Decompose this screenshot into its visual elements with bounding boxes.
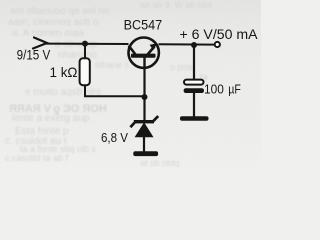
resistor R1 1 kOhm xyxy=(80,58,90,85)
output terminal xyxy=(215,42,220,47)
capacitor C1 100 uF (polarized) xyxy=(184,80,204,93)
svg-text:o poa: o poa xyxy=(170,62,193,72)
zener diode D1 6.8 V xyxy=(130,116,158,137)
node output junction xyxy=(191,42,197,48)
wire base lead to zener xyxy=(143,68,145,121)
svg-text:an sb 3. W sb obs: an sb 3. W sb obs xyxy=(140,0,213,10)
svg-text:100: 100 xyxy=(204,81,224,96)
svg-text:sthane s: sthane s xyxy=(95,60,130,70)
svg-text:lente a exerg aup: lente a exerg aup xyxy=(12,113,90,124)
node base junction xyxy=(142,94,148,100)
svg-text:a. A comen maa: a. A comen maa xyxy=(12,28,84,39)
svg-text:9/15 V: 9/15 V xyxy=(17,48,51,63)
input terminal xyxy=(33,38,47,49)
svg-text:am obanuoo qe aol no: am obanuoo qe aol no xyxy=(10,6,110,17)
svg-text:at sb obtq: at sb obtq xyxy=(140,158,180,168)
svg-text:6,8 V: 6,8 V xyxy=(101,130,128,145)
wire zener anode to ground xyxy=(143,136,145,152)
wire input to transistor xyxy=(46,43,129,45)
wire emitter to output xyxy=(159,43,215,45)
svg-text:c.casotbl ta ab f: c.casotbl ta ab f xyxy=(5,153,69,163)
node resistor tap xyxy=(82,41,88,47)
wire node to resistor top xyxy=(84,44,86,60)
svg-text:nhanano: nhanano xyxy=(58,50,97,61)
svg-text:1 kΩ: 1 kΩ xyxy=(50,65,78,80)
svg-text:BC547: BC547 xyxy=(124,17,163,33)
wire capacitor to ground xyxy=(193,93,195,117)
svg-text:+ 6 V/50 mA: + 6 V/50 mA xyxy=(180,27,259,43)
svg-text:aam, cinemoq aob o: aam, cinemoq aob o xyxy=(8,17,99,28)
transistor Q1 BC547 xyxy=(129,38,159,69)
wire resistor bottom to base node xyxy=(85,85,145,96)
ground bar (capacitor) xyxy=(180,116,209,121)
ground bar (zener) xyxy=(133,151,158,156)
svg-text:µF: µF xyxy=(228,82,241,97)
wire output node to capacitor xyxy=(193,45,195,80)
